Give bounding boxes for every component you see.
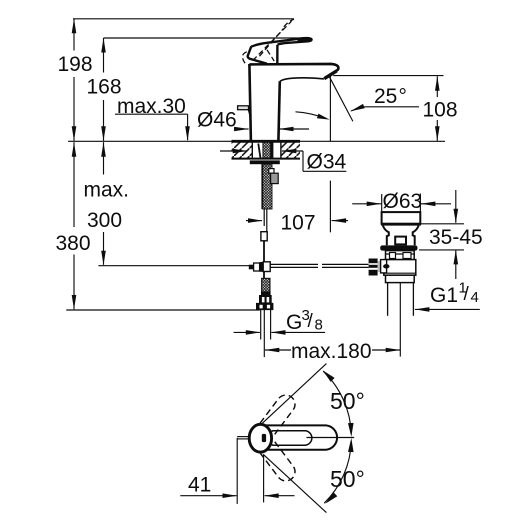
svg-text:8: 8 xyxy=(315,317,323,334)
svg-text:°: ° xyxy=(399,85,407,108)
svg-text:Ø46: Ø46 xyxy=(197,109,237,132)
svg-text:max.: max. xyxy=(84,179,130,202)
svg-text:max.180: max.180 xyxy=(291,340,372,363)
svg-text:41: 41 xyxy=(188,473,211,496)
svg-text:4: 4 xyxy=(471,289,479,306)
svg-text:25: 25 xyxy=(374,85,397,108)
svg-text:/: / xyxy=(308,311,314,332)
svg-text:max.30: max.30 xyxy=(117,95,186,118)
svg-text:Ø34: Ø34 xyxy=(307,151,347,174)
svg-text:35-45: 35-45 xyxy=(429,226,483,249)
svg-text:107: 107 xyxy=(281,212,316,235)
svg-text:50°: 50° xyxy=(330,466,365,492)
svg-text:300: 300 xyxy=(87,209,122,232)
svg-text:/: / xyxy=(464,284,470,305)
svg-text:G1: G1 xyxy=(430,284,458,307)
svg-text:50°: 50° xyxy=(330,388,365,414)
svg-text:198: 198 xyxy=(58,53,93,76)
svg-text:G: G xyxy=(286,311,302,334)
svg-text:108: 108 xyxy=(423,99,458,122)
svg-text:380: 380 xyxy=(56,232,91,255)
svg-text:Ø63: Ø63 xyxy=(383,190,423,213)
